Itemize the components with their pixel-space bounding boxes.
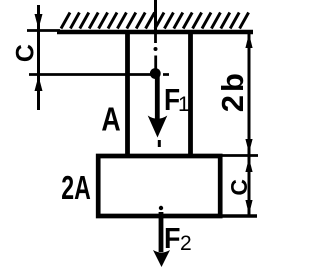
svg-text:1: 1 [178, 93, 190, 116]
svg-text:A: A [101, 102, 120, 138]
svg-text:F: F [164, 222, 180, 254]
svg-text:2A: 2A [61, 170, 91, 207]
svg-text:2: 2 [180, 232, 192, 255]
svg-text:C: C [226, 179, 252, 196]
svg-text:2b: 2b [215, 70, 250, 112]
svg-text:C: C [12, 44, 40, 62]
